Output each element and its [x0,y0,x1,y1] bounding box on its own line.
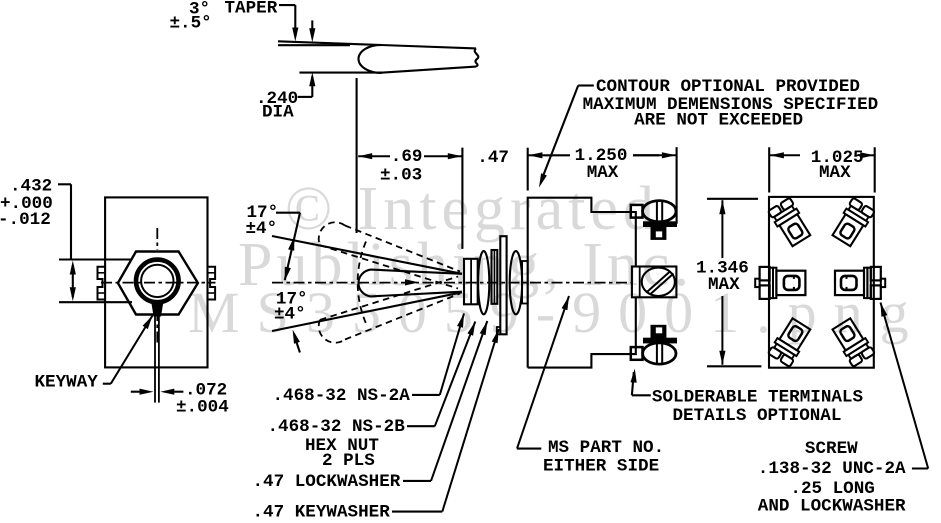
svg-text:±4°: ±4° [246,219,278,239]
svg-text:AND LOCKWASHER: AND LOCKWASHER [758,497,906,517]
svg-text:MAX: MAX [708,275,740,295]
svg-text:±.03: ±.03 [380,166,422,186]
svg-text:MS PART NO.: MS PART NO. [548,438,664,458]
svg-text:±.004: ±.004 [176,398,229,418]
svg-text:MAX: MAX [819,163,851,183]
svg-text:MAX: MAX [587,163,619,183]
svg-text:-.012: -.012 [0,210,51,230]
svg-text:.47 LOCKWASHER: .47 LOCKWASHER [253,472,401,492]
svg-text:ARE NOT EXCEEDED: ARE NOT EXCEEDED [634,111,803,131]
svg-text:EITHER SIDE: EITHER SIDE [543,457,659,477]
svg-text:.468-32 NS-2B: .468-32 NS-2B [268,417,406,437]
svg-text:±.5°: ±.5° [170,14,212,34]
svg-text:KEYWAY: KEYWAY [35,372,99,392]
svg-text:2 PLS: 2 PLS [322,451,375,471]
svg-text:DIA: DIA [262,103,294,123]
svg-text:SCREW: SCREW [805,439,858,459]
svg-text:.138-32 UNC-2A: .138-32 UNC-2A [758,459,906,479]
svg-text:±4°: ±4° [274,304,306,324]
svg-text:.47 KEYWASHER: .47 KEYWASHER [253,503,391,518]
svg-text:.468-32 NS-2A: .468-32 NS-2A [273,386,411,406]
svg-text:TAPER: TAPER [225,0,278,19]
svg-text:.69: .69 [391,147,423,167]
svg-text:DETAILS OPTIONAL: DETAILS OPTIONAL [673,406,842,426]
svg-text:SOLDERABLE TERMINALS: SOLDERABLE TERMINALS [652,388,864,408]
svg-text:.47: .47 [477,148,509,168]
